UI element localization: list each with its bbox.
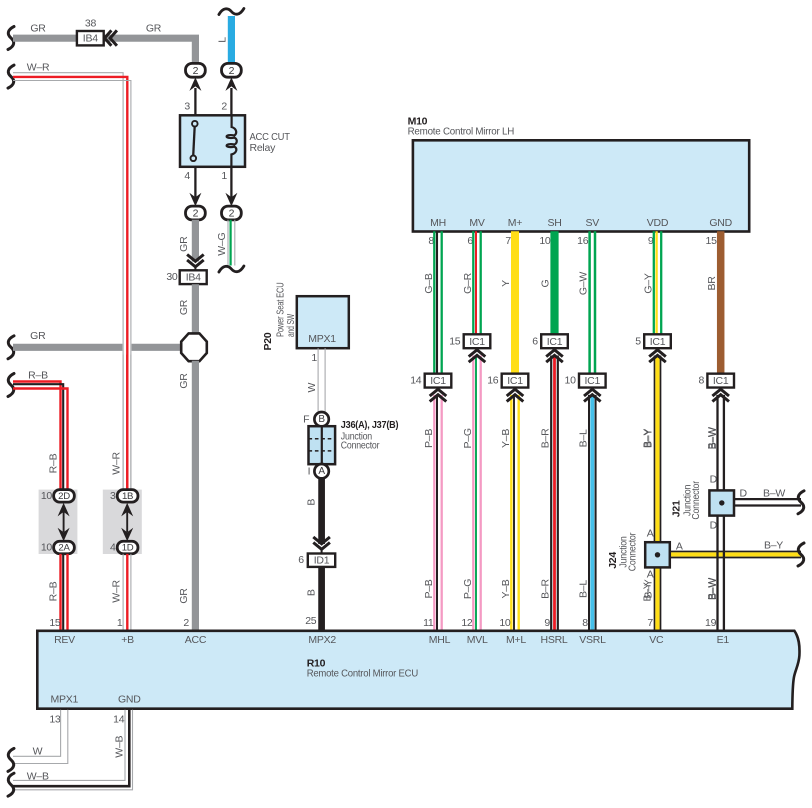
svg-text:4: 4	[110, 542, 116, 554]
svg-text:3: 3	[184, 101, 190, 113]
svg-text:P–G: P–G	[462, 428, 474, 448]
svg-text:B–W: B–W	[707, 427, 719, 449]
svg-text:IC1: IC1	[585, 375, 601, 387]
svg-text:14: 14	[113, 714, 125, 726]
svg-text:1: 1	[221, 170, 227, 182]
svg-text:B: B	[306, 499, 318, 506]
svg-text:IB4: IB4	[83, 33, 98, 45]
svg-text:W: W	[306, 383, 318, 393]
svg-text:15: 15	[706, 235, 718, 247]
svg-text:W: W	[33, 746, 43, 758]
svg-text:A: A	[318, 466, 325, 477]
svg-text:A: A	[676, 540, 683, 552]
svg-text:1B: 1B	[122, 491, 133, 502]
svg-text:M+L: M+L	[506, 634, 526, 646]
svg-text:Relay: Relay	[250, 142, 277, 154]
svg-text:2: 2	[229, 65, 235, 77]
svg-text:B–W: B–W	[763, 488, 785, 500]
svg-text:12: 12	[461, 617, 473, 629]
svg-text:2A: 2A	[58, 543, 70, 554]
svg-text:P20: P20	[262, 332, 274, 350]
svg-text:Connector: Connector	[690, 480, 702, 519]
svg-text:IC1: IC1	[650, 336, 666, 348]
svg-text:IC1: IC1	[507, 375, 523, 387]
svg-text:GR: GR	[146, 23, 162, 35]
svg-text:SH: SH	[547, 217, 561, 229]
svg-text:G–B: G–B	[423, 273, 435, 294]
svg-text:M+: M+	[508, 217, 522, 229]
svg-text:B–Y: B–Y	[764, 539, 783, 551]
svg-text:10: 10	[41, 542, 53, 554]
svg-text:Y–B: Y–B	[500, 429, 512, 448]
svg-text:6: 6	[532, 335, 538, 347]
svg-text:16: 16	[577, 235, 589, 247]
svg-text:B–Y: B–Y	[642, 582, 654, 601]
svg-text:10: 10	[539, 235, 551, 247]
svg-text:2: 2	[221, 101, 227, 113]
svg-text:R–B: R–B	[28, 369, 48, 381]
svg-text:P–G: P–G	[462, 579, 474, 599]
svg-text:Remote Control Mirror LH: Remote Control Mirror LH	[408, 126, 514, 138]
svg-text:BR: BR	[706, 276, 718, 291]
svg-text:W–B: W–B	[113, 735, 125, 757]
svg-text:F: F	[303, 414, 309, 426]
svg-text:38: 38	[85, 18, 97, 30]
svg-text:1: 1	[311, 352, 317, 364]
svg-text:15: 15	[449, 335, 461, 347]
svg-text:15: 15	[49, 617, 61, 629]
svg-text:25: 25	[305, 615, 317, 627]
svg-text:MH: MH	[430, 217, 446, 229]
svg-text:Connector: Connector	[341, 440, 380, 452]
svg-text:Connector: Connector	[626, 532, 638, 571]
svg-text:IC1: IC1	[430, 375, 446, 387]
svg-text:13: 13	[49, 714, 61, 726]
svg-text:GR: GR	[30, 330, 46, 342]
svg-text:D: D	[710, 473, 718, 485]
svg-text:MPX1: MPX1	[308, 333, 336, 345]
svg-text:IC1: IC1	[547, 336, 563, 348]
svg-text:Y–B: Y–B	[500, 579, 512, 598]
svg-text:B–W: B–W	[707, 578, 719, 600]
svg-text:G–R: G–R	[462, 272, 474, 294]
svg-text:Remote Control Mirror ECU: Remote Control Mirror ECU	[307, 667, 418, 679]
svg-text:IC1: IC1	[713, 375, 729, 387]
svg-text:IC1: IC1	[469, 336, 485, 348]
svg-text:10: 10	[565, 375, 577, 387]
svg-text:R–B: R–B	[48, 453, 60, 473]
svg-text:2: 2	[229, 208, 235, 220]
svg-text:ACC: ACC	[185, 634, 207, 646]
svg-text:B–L: B–L	[577, 580, 589, 598]
svg-text:MHL: MHL	[429, 634, 451, 646]
svg-text:2: 2	[193, 208, 199, 220]
svg-text:and SW: and SW	[285, 314, 297, 337]
svg-text:L: L	[217, 37, 229, 43]
svg-text:P–B: P–B	[423, 429, 435, 448]
svg-text:B–L: B–L	[577, 429, 589, 447]
svg-text:R–B: R–B	[48, 581, 60, 601]
svg-text:A: A	[647, 568, 654, 580]
svg-text:7: 7	[505, 235, 511, 247]
svg-text:ACC CUT: ACC CUT	[250, 131, 291, 143]
svg-text:GR: GR	[178, 236, 190, 252]
svg-text:5: 5	[635, 335, 641, 347]
svg-text:4: 4	[184, 170, 190, 182]
svg-text:9: 9	[544, 617, 550, 629]
svg-text:B–R: B–R	[540, 579, 552, 599]
svg-text:6: 6	[298, 554, 304, 566]
svg-text:D: D	[740, 488, 748, 500]
svg-text:W–R: W–R	[110, 452, 122, 475]
svg-text:I: I	[308, 465, 311, 477]
svg-text:ID1: ID1	[314, 555, 330, 567]
svg-text:SV: SV	[586, 217, 600, 229]
svg-text:P–B: P–B	[423, 579, 435, 598]
svg-text:G–W: G–W	[577, 272, 589, 296]
svg-text:GR: GR	[30, 23, 46, 35]
svg-text:VC: VC	[649, 634, 664, 646]
svg-text:1: 1	[117, 617, 123, 629]
svg-text:+B: +B	[121, 634, 134, 646]
svg-text:7: 7	[647, 617, 653, 629]
svg-text:HSRL: HSRL	[540, 634, 567, 646]
svg-text:G: G	[540, 279, 552, 287]
svg-text:10: 10	[41, 490, 53, 502]
svg-text:10: 10	[499, 617, 511, 629]
svg-text:W–R: W–R	[110, 580, 122, 603]
svg-text:VDD: VDD	[647, 217, 669, 229]
svg-text:A: A	[647, 527, 654, 539]
svg-text:16: 16	[487, 375, 499, 387]
svg-text:D: D	[710, 519, 718, 531]
svg-text:W–G: W–G	[216, 233, 228, 256]
svg-text:REV: REV	[54, 634, 75, 646]
svg-text:GR: GR	[178, 373, 190, 389]
svg-text:W–B: W–B	[27, 771, 49, 783]
svg-text:MPX2: MPX2	[308, 634, 336, 646]
svg-text:B–Y: B–Y	[642, 429, 654, 448]
svg-text:GR: GR	[178, 588, 190, 604]
svg-text:Y: Y	[500, 280, 512, 287]
svg-text:8: 8	[699, 375, 705, 387]
svg-text:8: 8	[582, 617, 588, 629]
svg-text:2: 2	[193, 65, 199, 77]
svg-text:GND: GND	[709, 217, 732, 229]
svg-text:MV: MV	[469, 217, 484, 229]
svg-text:14: 14	[410, 375, 422, 387]
svg-text:1D: 1D	[122, 543, 134, 554]
svg-text:MPX1: MPX1	[51, 693, 79, 705]
svg-text:B: B	[306, 589, 318, 596]
svg-text:B–R: B–R	[540, 428, 552, 448]
svg-text:30: 30	[166, 271, 178, 283]
svg-text:G–Y: G–Y	[643, 273, 655, 294]
svg-text:3: 3	[110, 490, 116, 502]
svg-text:VSRL: VSRL	[579, 634, 606, 646]
svg-text:GND: GND	[118, 693, 141, 705]
svg-text:19: 19	[705, 617, 717, 629]
svg-text:2D: 2D	[58, 491, 70, 502]
svg-text:MVL: MVL	[467, 634, 488, 646]
svg-text:E1: E1	[717, 634, 730, 646]
svg-text:2: 2	[183, 617, 189, 629]
svg-text:W–R: W–R	[27, 61, 50, 73]
svg-text:IB4: IB4	[186, 272, 201, 284]
svg-text:J36(A), J37(B): J36(A), J37(B)	[341, 419, 399, 431]
svg-text:11: 11	[423, 617, 434, 629]
svg-text:GR: GR	[178, 299, 190, 315]
svg-text:B: B	[318, 414, 325, 425]
